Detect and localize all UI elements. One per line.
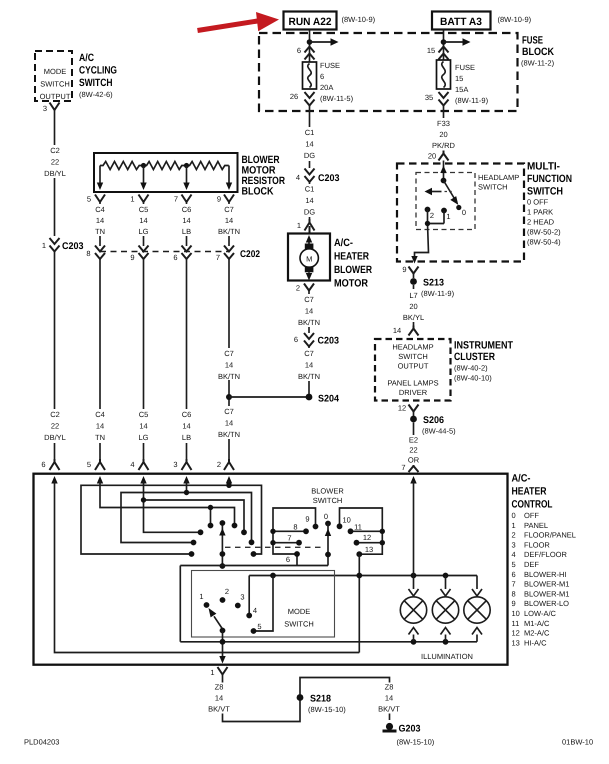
motor upper terminal [305,244,314,250]
control box pin 5 male connector [87,459,105,470]
svg-text:BLOWER-HI: BLOWER-HI [524,570,567,579]
svg-text:BK/VT: BK/VT [208,705,230,714]
svg-text:SWITCH: SWITCH [284,620,314,629]
control box pin 3 male connector [173,459,191,470]
motor internal feed arrow [306,235,312,244]
svg-text:1: 1 [297,221,301,230]
svg-text:BK/TN: BK/TN [218,372,240,381]
blower/mode common feed wire with arrow [219,520,225,569]
svg-text:5: 5 [87,195,91,204]
svg-text:TN: TN [95,227,105,236]
mode switch wiper arm [209,608,226,633]
svg-text:BLOWER: BLOWER [334,264,372,276]
instrument cluster pin 14 male connector [393,326,419,336]
svg-text:14: 14 [225,216,233,225]
fuse 15 pin 15 chevrons [427,46,449,60]
svg-text:LG: LG [138,433,148,442]
svg-text:13: 13 [365,545,373,554]
svg-text:L7: L7 [409,291,417,300]
mode contact 1 [199,592,209,608]
svg-text:TN: TN [95,433,105,442]
svg-text:DB/YL: DB/YL [44,433,66,442]
svg-text:C4: C4 [95,205,105,214]
node RUN A22 (feed box) [284,12,376,30]
svg-text:A/C-: A/C- [512,473,531,485]
instrument cluster pin 12 female connector [398,404,419,413]
svg-text:7: 7 [216,253,220,262]
wire C5 lower to control pin 4 [133,259,154,459]
resistor R2 (segment 1-7) [144,162,186,170]
svg-text:HEADLAMP: HEADLAMP [478,173,519,182]
svg-text:MODE: MODE [288,607,311,616]
wire RUN A22 to fuse 6 [309,30,311,63]
svg-text:(8W-11-9): (8W-11-9) [455,96,489,105]
svg-text:A/C-: A/C- [334,237,353,249]
svg-text:INSTRUMENT: INSTRUMENT [454,340,513,352]
svg-text:(8W-15-10): (8W-15-10) [308,705,346,714]
MFS pin 20 male connector [428,151,449,161]
wire C7 14 BK/TN upper [216,202,243,246]
svg-text:14: 14 [305,361,313,370]
svg-text:G203: G203 [399,724,421,735]
svg-text:14: 14 [225,361,233,370]
wire pin3 internal [121,481,254,545]
svg-text:BLOCK: BLOCK [242,186,274,198]
svg-text:CLUSTER: CLUSTER [454,351,495,363]
svg-text:PK/RD: PK/RD [432,141,456,150]
svg-text:BK/YL: BK/YL [403,313,424,322]
svg-text:1: 1 [42,241,46,250]
svg-text:C203: C203 [62,241,84,252]
wire contact13 riser to illumination feed and pin6 line [358,554,360,652]
svg-text:C7: C7 [304,295,314,304]
svg-text:14: 14 [182,422,190,431]
wire 20 into headlamp switch with arrow [440,161,446,181]
svg-text:FUNCTION: FUNCTION [527,173,572,185]
svg-text:13: 13 [512,638,520,647]
control box pin 4 male connector [130,459,148,470]
headlamp switch wiper arm [444,181,459,205]
svg-text:2: 2 [225,587,229,596]
label A/C CYCLING SWITCH [79,52,117,99]
svg-text:M: M [306,255,312,264]
svg-text:9: 9 [402,265,406,274]
illumination return line [180,639,477,645]
headlamp switch inner dashed box [416,173,519,230]
svg-text:BLOWER-M1: BLOWER-M1 [524,580,569,589]
junction node under RUN A22 with branch arrow [307,38,339,46]
svg-text:10: 10 [343,516,351,525]
mechanical link (dashed) [225,546,321,548]
svg-text:PANEL: PANEL [524,521,548,530]
mode contact 5 [251,622,262,634]
svg-text:OR: OR [408,456,420,465]
svg-text:MODE: MODE [44,67,67,76]
svg-text:2: 2 [430,211,434,220]
pin 1 connector of resistor block [130,195,148,204]
mode contact 2 [220,587,229,603]
svg-text:1 PARK: 1 PARK [527,208,553,217]
svg-text:BK/TN: BK/TN [218,430,240,439]
svg-text:14: 14 [385,694,393,703]
svg-text:9: 9 [130,253,134,262]
svg-text:20: 20 [428,152,436,161]
svg-text:1: 1 [210,668,214,677]
svg-text:5: 5 [512,560,516,569]
wire E2 22 OR [404,423,423,465]
svg-text:1: 1 [512,521,516,530]
label MULTI-FUNCTION SWITCH [527,161,572,247]
mode switch (thin box) [192,571,335,638]
svg-text:CYCLING: CYCLING [79,65,117,77]
svg-text:CONTROL: CONTROL [512,499,553,511]
svg-text:(8W-50-4): (8W-50-4) [527,238,561,247]
svg-text:SWITCH: SWITCH [79,77,113,89]
svg-text:12: 12 [363,533,371,542]
svg-text:BK/TN: BK/TN [298,318,320,327]
svg-text:20: 20 [439,130,447,139]
svg-text:1: 1 [130,195,134,204]
svg-text:4: 4 [512,550,516,559]
red locator arrow [198,12,280,31]
wire C6 lower to control pin 3 [176,259,197,459]
svg-text:BLOWER-M1: BLOWER-M1 [524,589,569,598]
connector C203 pin 4 chevrons [296,169,340,185]
pin 7 connector of resistor block [174,195,192,204]
A/C cycling switch (dashed box) [35,51,72,101]
svg-text:FUSE: FUSE [522,35,543,47]
svg-text:C203: C203 [318,336,340,347]
svg-text:FUSE: FUSE [320,61,340,70]
illumination lamp 2 [432,576,458,642]
svg-text:S218: S218 [310,694,332,705]
junction node on C7 wire [226,394,232,400]
svg-text:12: 12 [512,629,520,638]
motor pin 2 female connector [296,284,314,293]
connector C203 pin 6 chevrons [294,333,339,347]
svg-text:6: 6 [286,555,290,564]
fuse F6 20A [303,61,354,103]
svg-text:BLOCK: BLOCK [522,46,554,58]
control box pin 7 male connector [401,463,418,472]
contact 1 of headlamp switch [441,208,450,221]
svg-text:14: 14 [96,422,104,431]
svg-text:C7: C7 [224,349,234,358]
svg-text:OUTPUT: OUTPUT [398,362,429,371]
svg-text:01BW-10: 01BW-10 [562,738,593,747]
label BLOWER SWITCH [311,487,344,506]
svg-text:14: 14 [96,216,104,225]
pin 5 connector of resistor block [87,195,105,204]
MFS pin 9 female connector [402,265,418,274]
wire E2 internal [413,481,415,576]
headlamp switch pivot node [441,178,447,184]
svg-text:4: 4 [130,460,134,469]
svg-text:DB/YL: DB/YL [44,169,66,178]
svg-text:12: 12 [398,404,406,413]
svg-text:LB: LB [182,227,191,236]
svg-text:C202: C202 [240,249,260,260]
A/C-heater control (box) [34,474,508,665]
svg-text:6: 6 [294,335,298,344]
svg-text:14: 14 [182,216,190,225]
illumination lamp 1 [400,576,426,642]
headlamp switch direction arrow (left) [425,188,453,195]
svg-text:6: 6 [173,253,177,262]
connector C202 (dashed in-line connector) [100,249,260,260]
wire C5 14 LG upper [133,202,154,246]
svg-text:E2: E2 [409,436,418,445]
resistor R1 (segment 5-1) [100,162,143,170]
svg-text:2: 2 [296,284,300,293]
svg-text:5: 5 [257,622,261,631]
svg-text:A/C: A/C [79,52,94,64]
resistor R3 (segment 7-9) [187,162,229,170]
svg-text:HEATER: HEATER [512,486,547,498]
svg-text:10: 10 [512,609,520,618]
svg-text:14: 14 [225,419,233,428]
svg-text:2: 2 [512,531,516,540]
svg-text:BLOWER: BLOWER [311,487,344,496]
mode wiper stem to illumination return [222,631,224,657]
svg-text:(8W-10-9): (8W-10-9) [342,15,376,24]
svg-text:22: 22 [51,158,59,167]
svg-text:RUN A22: RUN A22 [289,16,332,28]
svg-text:PLD04203: PLD04203 [24,738,59,747]
svg-text:22: 22 [51,422,59,431]
blower contact 11 [348,523,385,535]
control box pin 2 male connector [217,459,234,470]
svg-text:15: 15 [455,74,463,83]
blower contact 9 [305,515,318,530]
svg-text:ILLUMINATION: ILLUMINATION [421,652,473,661]
svg-text:OUTPUT: OUTPUT [40,92,71,101]
svg-text:DEF/FLOOR: DEF/FLOOR [524,550,568,559]
wire Z8 14 BK/VT to ground [300,678,403,721]
svg-text:(8W-11-5): (8W-11-5) [320,94,354,103]
svg-text:3: 3 [173,460,177,469]
C202 pin 6 chevron [173,246,191,263]
svg-text:C5: C5 [139,410,149,419]
svg-text:14: 14 [305,307,313,316]
svg-text:1: 1 [446,212,450,221]
fuse F15 15A [437,60,489,105]
svg-text:9: 9 [305,515,309,524]
svg-text:4: 4 [253,606,257,615]
svg-text:C1: C1 [305,185,315,194]
fuse 15 pin 35 chevrons [425,92,449,106]
motor lower terminal [305,267,314,273]
C202 pin 7 chevron [216,246,234,263]
svg-text:SWITCH: SWITCH [527,186,563,198]
ground G203 [383,723,435,747]
svg-text:7: 7 [174,195,178,204]
svg-text:14: 14 [393,326,401,335]
svg-text:BLOWER-LO: BLOWER-LO [524,599,569,608]
wire pin2 internal [81,481,262,557]
svg-text:20A: 20A [320,83,333,92]
svg-text:M1-A/C: M1-A/C [524,619,550,628]
svg-text:7: 7 [512,580,516,589]
pin 9 connector of resistor block [217,195,234,204]
blower motor pin 1 male connector [297,219,315,234]
svg-text:(8W-10-9): (8W-10-9) [498,15,532,24]
mode contact 3 [235,593,245,609]
svg-text:14: 14 [139,216,147,225]
svg-text:C7: C7 [304,349,314,358]
blower motor resistor block (box) [94,153,238,192]
svg-text:Z8: Z8 [215,683,224,692]
wire pin5 internal [100,481,237,528]
wire pin6 internal (to contact 13 riser) [55,481,360,653]
svg-text:(8W-11-9): (8W-11-9) [421,289,455,298]
svg-text:6: 6 [297,46,301,55]
C202 pin 9 chevron [130,246,148,263]
svg-text:FUSE: FUSE [455,63,475,72]
contact 2 of headlamp switch [425,207,434,220]
svg-text:LG: LG [138,227,148,236]
svg-text:(8W-40-10): (8W-40-10) [454,374,492,383]
svg-text:3: 3 [512,540,516,549]
mode switch feed brackets (contacts 4 and 5) [249,576,273,632]
svg-text:(8W-15-10): (8W-15-10) [397,738,435,747]
svg-text:(8W-42-6): (8W-42-6) [79,90,113,99]
svg-text:BK/VT: BK/VT [378,705,400,714]
wire 6 (pole to mode area) [180,551,328,642]
svg-text:S204: S204 [318,394,340,405]
svg-text:35: 35 [425,93,433,102]
contact 0 of headlamp switch [456,205,466,217]
svg-text:15A: 15A [455,85,468,94]
A/C-heater blower motor M1 (box) [288,234,330,281]
svg-text:2 HEAD: 2 HEAD [527,218,555,227]
blower contact 10 [337,516,351,530]
wire C6 14 LB upper [176,202,197,246]
blower contact 8 [270,523,309,535]
svg-text:MULTI-: MULTI- [527,161,560,173]
connector C203 pin 1 (in-line double chevron) [42,238,84,252]
label BLOWER MOTOR RESISTOR BLOCK [242,154,286,198]
svg-text:DEF: DEF [524,560,539,569]
svg-text:OFF: OFF [524,511,539,520]
svg-text:LB: LB [182,433,191,442]
blower contact 7 [270,534,302,546]
wire from contacts 2/1 out of MFS [411,210,444,264]
svg-text:HEATER: HEATER [334,251,369,263]
svg-text:15: 15 [427,46,435,55]
svg-text:6: 6 [512,570,516,579]
wire Z8 14 BK/VT to S218 [206,675,300,722]
svg-text:LOW-A/C: LOW-A/C [524,609,557,618]
junction node (tap 1) [141,163,146,168]
svg-text:14: 14 [215,694,223,703]
pin 6 male connector into A/C-heater control [41,459,59,470]
svg-text:3: 3 [43,104,47,113]
svg-text:5: 5 [87,460,91,469]
control box pin 1 female connector [210,667,227,677]
svg-text:(8W-40-2): (8W-40-2) [454,364,488,373]
svg-text:(8W-50-2): (8W-50-2) [527,228,561,237]
svg-text:(8W-11-2): (8W-11-2) [521,59,555,68]
svg-text:7: 7 [401,463,405,472]
svg-text:11: 11 [354,523,362,532]
multi-function switch (dashed box) [397,164,524,262]
junction node under BATT A3 with branch arrow [441,38,471,46]
svg-text:SWITCH: SWITCH [478,183,508,192]
svg-text:S206: S206 [423,415,444,426]
svg-text:6: 6 [41,460,45,469]
svg-text:7: 7 [287,534,291,543]
splice node S206 [410,412,456,436]
svg-text:PANEL LAMPS: PANEL LAMPS [387,379,438,388]
svg-text:3: 3 [240,593,244,602]
blower switch pole 0 with arrow [324,512,331,566]
illumination lamp 3 [464,576,490,642]
blower switch left bracket [273,508,316,554]
blower contact 13 [356,545,373,557]
svg-text:S213: S213 [423,278,444,289]
svg-text:SWITCH: SWITCH [40,80,70,89]
splice node S218 [297,694,347,715]
svg-text:14: 14 [305,140,313,149]
svg-text:8: 8 [86,249,90,258]
blower switch right bracket [340,508,383,554]
svg-text:DG: DG [304,208,315,217]
pin 3 connector of cycling switch [43,103,60,114]
svg-text:C6: C6 [182,205,192,214]
junction node (tap 7) [184,163,189,168]
svg-text:11: 11 [512,619,520,628]
svg-text:C2: C2 [50,410,60,419]
entry arrows inside box top [51,476,416,484]
wire C7 lower to control pin 2 [216,259,243,459]
svg-text:8: 8 [293,523,297,532]
svg-text:C2: C2 [50,146,60,155]
svg-text:20: 20 [409,302,417,311]
svg-text:SWITCH: SWITCH [398,352,428,361]
svg-text:BK/TN: BK/TN [218,227,240,236]
blower contact 12 [354,533,385,546]
label A/C-HEATER BLOWER MOTOR [334,237,372,290]
wire C1 14 DG upper [299,106,320,169]
svg-text:C4: C4 [95,410,105,419]
wire C4 14 TN upper [90,202,111,246]
svg-text:0: 0 [462,208,466,217]
wire C4 lower to control pin 5 [90,259,111,459]
mode contact 4 [246,606,257,618]
svg-text:1: 1 [199,592,203,601]
svg-text:C5: C5 [139,205,149,214]
svg-text:22: 22 [409,446,417,455]
svg-text:9: 9 [217,195,221,204]
splice node S213 [410,274,444,289]
svg-text:(8W-44-5): (8W-44-5) [422,427,456,436]
svg-text:HI-A/C: HI-A/C [524,638,547,647]
wire junction C7 to S204 [229,396,309,398]
wire BATT A3 to fuse 15 [443,30,445,61]
svg-text:HEADLAMP: HEADLAMP [392,343,433,352]
node BATT A3 (feed box) [432,12,532,30]
splice node S204 [306,394,340,405]
svg-text:F33: F33 [437,119,450,128]
motor winding symbol M [300,249,318,267]
svg-text:2: 2 [217,460,221,469]
svg-text:0: 0 [324,512,328,521]
fuse 6 pin 26 chevrons [290,92,315,106]
svg-text:0: 0 [512,511,516,520]
exit arrow to pin 1 [219,656,225,664]
wire C2 22 DB/YL upper segment [42,110,68,236]
